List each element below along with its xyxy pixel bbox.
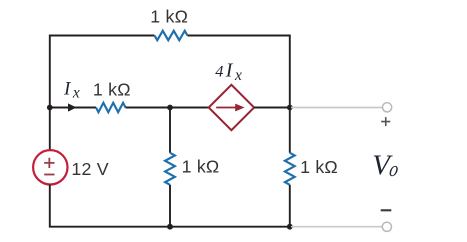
arrow inside dependent source xyxy=(216,104,244,112)
svg-text:4: 4 xyxy=(215,61,223,80)
voltage source V1 12V (circle) xyxy=(33,150,67,184)
svg-text:1 kΩ: 1 kΩ xyxy=(300,157,338,177)
wire node A to resistor R2 with current arrow xyxy=(50,107,96,109)
wire top-resistor to top-right corner and down to node B xyxy=(188,36,290,108)
svg-text:1 kΩ: 1 kΩ xyxy=(93,80,131,100)
wire node B down to R4 xyxy=(289,108,291,153)
resistor R3 1 kOhm (middle vertical) xyxy=(165,153,175,185)
svg-text:1 kΩ: 1 kΩ xyxy=(150,7,188,27)
bottom output terminal (open circle) xyxy=(382,222,391,231)
svg-text:1 kΩ: 1 kΩ xyxy=(182,156,220,176)
current arrow Ix xyxy=(68,103,77,111)
svg-text:12 V: 12 V xyxy=(71,159,108,179)
dependent current source U1 (diamond) xyxy=(209,85,254,130)
node A (left, Ix takeoff) xyxy=(47,105,53,111)
wire top-left to top-resistor xyxy=(50,36,155,111)
gray lead to top output terminal xyxy=(291,107,383,109)
wire diamond right vertex to node B xyxy=(254,107,291,109)
wire source to bottom-left corner and along bottom xyxy=(50,184,170,226)
wire R4 to bottom node E xyxy=(289,185,291,227)
node E (bottom right) xyxy=(287,224,293,230)
wire R2 to diamond left vertex xyxy=(126,107,209,109)
wire node C down to R3 xyxy=(169,108,171,153)
resistor R2 1 kOhm (middle horizontal) xyxy=(96,103,126,112)
plus sign inside source xyxy=(44,158,54,168)
wire R3 to bottom node D xyxy=(169,185,171,227)
gray lead to bottom output terminal xyxy=(291,226,382,228)
svg-text:Ix: Ix xyxy=(63,79,80,102)
node B (right, mid) xyxy=(287,105,293,111)
resistor R4 1 kOhm (right vertical) xyxy=(285,153,295,185)
resistor R1 1 kOhm (top) xyxy=(155,31,188,40)
wire bottom node D to node E xyxy=(170,226,290,228)
minus sign at output xyxy=(381,209,392,211)
node C (middle, top of R3) xyxy=(167,105,173,111)
label 4 Ix xyxy=(215,59,242,83)
minus sign inside source xyxy=(44,174,54,176)
top output terminal (open circle) xyxy=(383,103,392,112)
wire left vertical upper (node A to source) xyxy=(49,105,51,150)
label Vo xyxy=(372,149,400,181)
node D (bottom middle) xyxy=(167,224,173,230)
svg-text:Ix: Ix xyxy=(225,59,242,83)
plus sign at output xyxy=(381,117,390,126)
